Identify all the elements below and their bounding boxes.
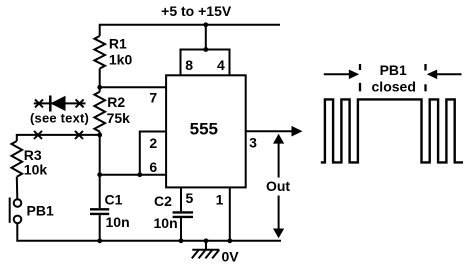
svg-text:10n: 10n <box>154 215 178 231</box>
svg-text:1k0: 1k0 <box>109 52 133 68</box>
svg-text:5: 5 <box>186 190 194 206</box>
svg-text:R1: R1 <box>109 36 127 52</box>
svg-text:3: 3 <box>249 135 257 151</box>
svg-text:555: 555 <box>190 119 218 138</box>
svg-text:2: 2 <box>149 135 157 151</box>
svg-text:C1: C1 <box>105 192 123 208</box>
svg-text:6: 6 <box>149 159 157 175</box>
svg-text:10k: 10k <box>24 161 48 177</box>
svg-text:7: 7 <box>149 90 157 106</box>
svg-text:closed: closed <box>372 79 416 95</box>
svg-text:Out: Out <box>266 178 290 194</box>
svg-text:10n: 10n <box>106 214 130 230</box>
svg-text:1: 1 <box>216 192 224 208</box>
svg-text:C2: C2 <box>154 193 172 209</box>
svg-text:PB1: PB1 <box>27 202 54 218</box>
svg-text:R2: R2 <box>107 94 125 110</box>
svg-text:(see text): (see text) <box>30 111 89 126</box>
svg-text:0V: 0V <box>222 248 240 264</box>
svg-text:+5 to +15V: +5 to +15V <box>161 3 232 19</box>
svg-text:4: 4 <box>217 57 225 73</box>
svg-text:75k: 75k <box>107 110 131 126</box>
svg-text:PB1: PB1 <box>380 62 407 78</box>
svg-text:8: 8 <box>185 57 193 73</box>
